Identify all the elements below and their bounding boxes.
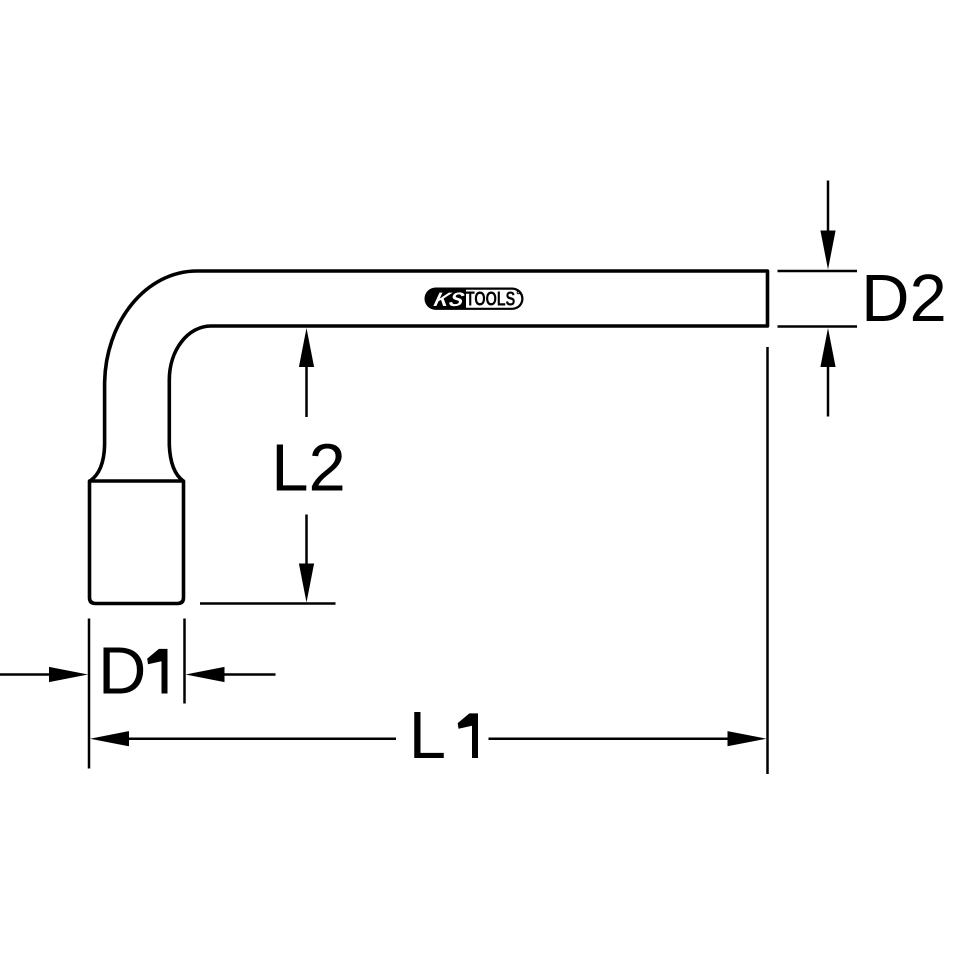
svg-text:KS: KS xyxy=(432,289,466,311)
KS TOOLS logo: TOOLS wordmark xyxy=(466,287,516,310)
wrench body outline (L-shaped socket wrench silhouette) xyxy=(90,271,768,604)
dimension D2: lower arrowhead (up) xyxy=(820,328,835,367)
svg-text:D: D xyxy=(98,634,146,709)
dimension D2: lower arrow line xyxy=(827,362,830,417)
dimension L1: left line segment xyxy=(125,737,396,740)
svg-text:D2: D2 xyxy=(861,261,947,336)
dimension D1: left extension line xyxy=(88,619,91,769)
dimension D1: right arrow line xyxy=(220,673,276,676)
svg-text:TOOLS: TOOLS xyxy=(466,287,516,310)
dimension L1: right extension line xyxy=(766,347,769,774)
KS TOOLS logo: registered mark xyxy=(517,291,520,294)
dimension D2: bottom extension line xyxy=(778,325,858,328)
dimension L2: upper arrow line xyxy=(305,362,308,417)
dimension L2: upper arrowhead (up) xyxy=(299,328,314,367)
dimension D2: upper arrowhead (down) xyxy=(820,231,835,270)
KS TOOLS logo: outer stadium xyxy=(425,287,524,311)
dimension L2: lower arrowhead (down) xyxy=(299,564,314,603)
dimension L1: right arrowhead (right) xyxy=(728,731,767,746)
dimension L1: left arrowhead (left) xyxy=(90,731,129,746)
dimension L1: right line segment xyxy=(489,737,731,740)
dimension D2: upper arrow line xyxy=(827,181,830,237)
KS TOOLS logo: KS italic mark xyxy=(432,289,466,311)
svg-text:L2: L2 xyxy=(271,431,346,506)
dimension L2: lower arrow line xyxy=(305,515,308,569)
dimension D1: right extension line xyxy=(183,619,186,704)
dimension D1: left arrow line xyxy=(0,673,53,676)
dimension L2: bottom reference line xyxy=(200,602,336,605)
KS TOOLS logo: white right field xyxy=(466,290,521,308)
dimension D1: left arrowhead (right) xyxy=(49,667,88,682)
dimension D2: top extension line xyxy=(778,270,858,273)
socket top edge line xyxy=(90,479,184,483)
svg-text:L: L xyxy=(409,698,446,773)
dimension D1: right arrowhead (left) xyxy=(186,667,225,682)
